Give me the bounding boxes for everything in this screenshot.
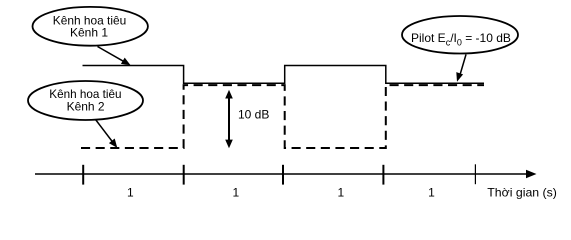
node callout ellipse Kenh 2 (28, 81, 143, 120)
svg-text:10 dB: 10 dB (238, 108, 269, 122)
tick 3 (282, 165, 284, 185)
tick 5 (474, 164, 476, 184)
dimension double-arrow 10 dB (225, 90, 233, 149)
wire channel-1 solid waveform (83, 66, 485, 84)
svg-text:Kênh 2: Kênh 2 (67, 100, 105, 114)
wire channel-2 dashed waveform (81, 85, 484, 148)
label Kenh hoa tieu / Kenh 2 (49, 87, 121, 114)
wire leader arrow from Pilot ellipse (456, 55, 466, 82)
tick 4 (382, 165, 384, 185)
svg-text:Kênh 1: Kênh 1 (70, 25, 108, 39)
svg-text:Thời gian (s): Thời gian (s) (487, 185, 557, 199)
wire time axis (35, 173, 528, 175)
svg-text:1: 1 (428, 185, 435, 199)
label Kenh hoa tieu / Kenh 1 (53, 13, 127, 39)
svg-text:1: 1 (337, 185, 344, 199)
wire leader arrow from Kenh 1 ellipse (98, 47, 131, 66)
tick 1 (82, 165, 84, 185)
svg-text:1: 1 (127, 185, 134, 199)
wire leader arrow from Kenh 2 ellipse (96, 120, 118, 148)
svg-text:1: 1 (233, 185, 240, 199)
node callout ellipse Kenh 1 (32, 7, 147, 46)
arrowhead time axis (526, 170, 537, 178)
tick 2 (183, 165, 185, 185)
node callout ellipse Pilot (402, 16, 518, 54)
